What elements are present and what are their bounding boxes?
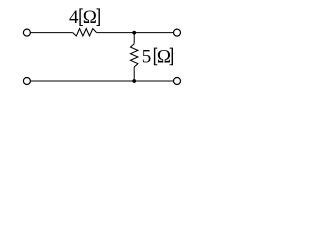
value label 5[Ω] — [142, 46, 173, 67]
value label 4[Ω] — [69, 7, 100, 28]
terminal bottom-right — [174, 78, 181, 85]
node B junction dot (bottom) — [132, 79, 136, 83]
svg-text:Ω: Ω — [83, 7, 97, 28]
svg-text:5: 5 — [142, 46, 152, 67]
terminal bottom-left — [23, 78, 30, 85]
wire resistor R1 to node A — [97, 32, 135, 34]
wire node A down to resistor R2 — [133, 33, 135, 44]
wire top-left to resistor R1 — [31, 32, 73, 34]
wire node A to terminal top-right — [134, 32, 173, 34]
wire bottom (terminal bottom-left to terminal bottom-right through node B) — [31, 80, 174, 82]
terminal top-right — [174, 29, 181, 36]
resistor R1 4 ohm (horizontal zigzag) — [73, 29, 97, 36]
svg-text:4: 4 — [69, 7, 79, 28]
svg-text:Ω: Ω — [157, 46, 171, 67]
wire resistor R2 down to node B — [133, 67, 135, 81]
node A junction dot (top) — [132, 31, 136, 35]
resistor R2 5 ohm (vertical zigzag) — [131, 44, 138, 67]
terminal top-left — [23, 29, 30, 36]
